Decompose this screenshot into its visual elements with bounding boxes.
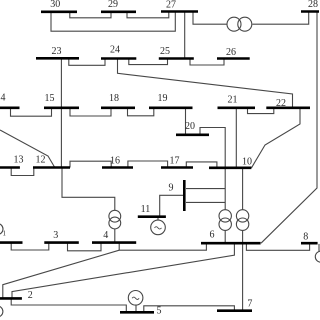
svg-text:4: 4 (103, 230, 108, 241)
svg-text:22: 22 (276, 98, 286, 109)
svg-text:7: 7 (247, 298, 252, 309)
svg-text:12: 12 (36, 155, 46, 166)
svg-text:27: 27 (166, 0, 176, 11)
svg-text:25: 25 (160, 46, 170, 57)
svg-text:9: 9 (169, 183, 174, 194)
svg-text:28: 28 (308, 0, 318, 10)
svg-text:24: 24 (110, 45, 120, 56)
svg-text:21: 21 (228, 95, 238, 106)
svg-text:17: 17 (170, 156, 180, 167)
svg-text:30: 30 (50, 0, 60, 10)
svg-text:8: 8 (303, 232, 308, 243)
svg-text:29: 29 (108, 0, 118, 10)
svg-text:18: 18 (109, 93, 119, 104)
svg-text:15: 15 (45, 93, 55, 104)
svg-text:16: 16 (110, 156, 120, 167)
svg-text:2: 2 (28, 290, 33, 301)
svg-text:6: 6 (210, 230, 215, 241)
svg-text:5: 5 (157, 306, 162, 317)
svg-text:11: 11 (141, 204, 151, 215)
svg-text:20: 20 (185, 121, 195, 132)
svg-text:1: 1 (3, 230, 7, 238)
svg-text:23: 23 (52, 46, 62, 57)
svg-text:3: 3 (53, 230, 58, 241)
svg-text:10: 10 (242, 157, 252, 168)
svg-text:13: 13 (14, 155, 24, 166)
svg-text:26: 26 (226, 47, 236, 58)
svg-text:14: 14 (0, 93, 6, 104)
svg-text:19: 19 (158, 93, 168, 104)
